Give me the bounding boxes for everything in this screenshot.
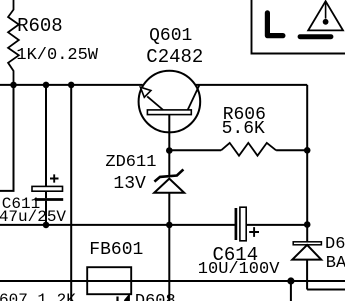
legend triangle pendulum line (325, 1, 327, 18)
resistor R606 (221, 143, 276, 156)
label D608 (cropped) (135, 293, 176, 301)
capacitor C614 positive plate (240, 207, 246, 241)
label 13V (113, 175, 145, 193)
label 1K/0.25W (16, 47, 98, 64)
node junction dot middle rail at zener column (166, 222, 173, 229)
node junction dot at R608 bottom (10, 82, 17, 89)
legend ground bar (300, 34, 331, 39)
label 47u/25V (0, 209, 66, 225)
label Q601 (149, 27, 192, 45)
bottom cropped glyph mark 1 (116, 297, 118, 301)
wire base node to R606 (169, 149, 221, 151)
node junction dot middle rail at right column (304, 221, 311, 228)
wire zener cathode lead (168, 151, 170, 177)
node junction dot bottom rail (287, 277, 294, 284)
transistor Q601 base bar (147, 110, 191, 115)
label R607 1.2K (cropped) (0, 292, 76, 301)
wire diode anode out right edge (307, 289, 345, 291)
wire stub below bottom rail dot (290, 281, 292, 301)
transistor Q601 emitter arrowhead (140, 87, 151, 97)
wire C611 top lead (45, 85, 47, 186)
transistor Q601 base lead down (168, 115, 170, 151)
node junction dot at base node (166, 147, 173, 154)
capacitor C614 plus sign (249, 227, 259, 237)
legend triangle symbol (308, 1, 343, 30)
wire zener anode lead (168, 193, 170, 225)
legend box border (252, 0, 345, 54)
wire middle rail left segment (0, 224, 235, 226)
label 5.6K (222, 120, 265, 138)
zener diode ZD611 cathode bar (154, 169, 183, 181)
node junction dot at right column R606 (304, 147, 311, 154)
wire left branch down and out left edge (0, 85, 14, 191)
transistor Q601 emitter shaft (147, 96, 163, 110)
wire C611 between plates (45, 191, 47, 198)
label R606 (223, 106, 266, 124)
wire top rail left of Q601 (0, 84, 143, 86)
wire bottom rail (0, 280, 345, 282)
capacitor C614 negative plate (235, 208, 238, 240)
label FB601 (89, 241, 143, 259)
label D6 (cropped) (325, 236, 345, 253)
resistor R608 (8, 0, 19, 85)
wire top rail right of Q601 to corner (196, 84, 307, 86)
label C611 (2, 196, 40, 212)
ferrite bead FB601 box (87, 267, 131, 294)
legend triangle pendulum dot (323, 19, 329, 25)
node junction dot at C611 top (43, 82, 50, 89)
label C2482 (146, 48, 203, 67)
label R608 (17, 17, 63, 36)
wire R606 to right column (276, 149, 307, 151)
transistor Q1 body circle (139, 71, 201, 133)
label 10U/100V (198, 261, 280, 278)
wire right column vertical (306, 85, 308, 242)
legend L symbol (267, 13, 283, 36)
label BA (cropped) (326, 255, 345, 272)
diode D615 cathode bar (293, 242, 321, 245)
wire C611 bottom lead (45, 201, 47, 225)
wire diode anode lead (306, 260, 308, 290)
capacitor C611 negative plate (35, 198, 63, 201)
capacitor C611 positive plate (32, 186, 63, 191)
wire vertical branch x=71 down to bottom edge (70, 85, 72, 301)
transistor Q601 collector lead (188, 85, 200, 110)
capacitor C611 plus sign (50, 174, 59, 182)
diode D615 triangle (292, 245, 321, 260)
wire middle column below rail to bottom edge (168, 225, 170, 301)
label ZD611 (105, 154, 156, 171)
node junction dot at third branch (68, 82, 75, 89)
zener diode ZD611 triangle (154, 179, 184, 193)
label C614 (213, 246, 259, 265)
wire middle rail right segment (246, 224, 307, 226)
node junction dot at C611 bottom (43, 222, 50, 229)
bottom cropped glyph mark 2 (125, 296, 130, 301)
